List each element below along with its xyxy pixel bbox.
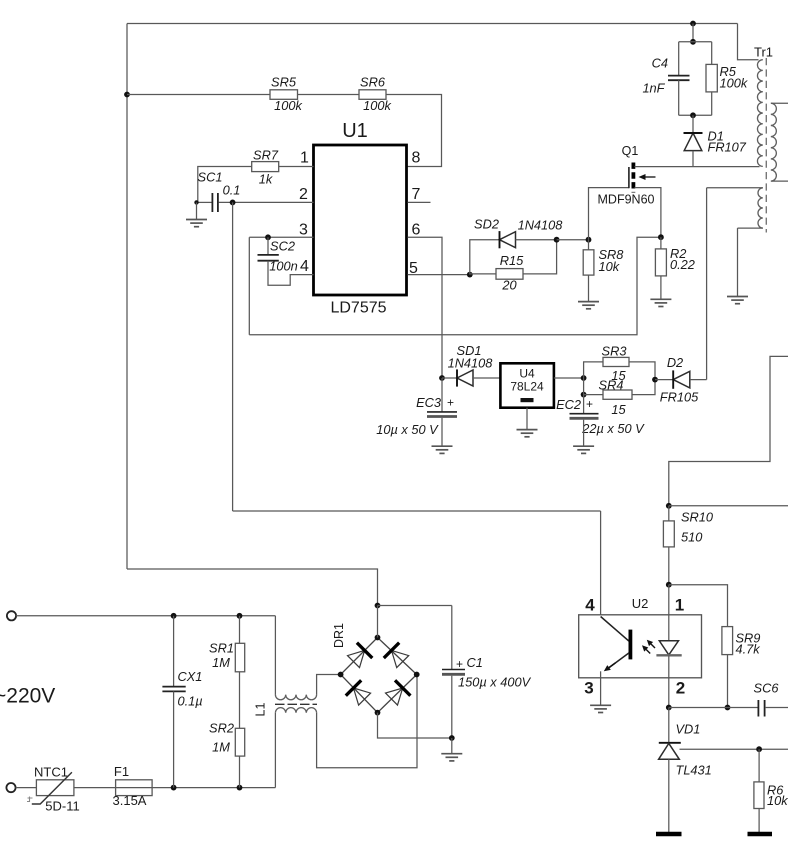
node opto anode: [666, 582, 672, 588]
wire L1 to bridge left: [317, 675, 341, 695]
svg-text:VD1: VD1: [676, 722, 701, 737]
thermistor NTC1 t-mark: [27, 797, 33, 802]
op-amp U4 78L24 body: [500, 363, 554, 407]
arrow U2 emitter: [604, 663, 616, 672]
wire C4 bottom lead: [678, 80, 680, 115]
diode D2: [673, 370, 690, 388]
capacitor EC3: [427, 412, 457, 417]
wire SR3 branch: [584, 362, 603, 378]
svg-text:SR1: SR1: [209, 641, 234, 656]
svg-text:6: 6: [412, 221, 421, 238]
wire EC2 top lead: [583, 395, 585, 414]
terminal AC live: [7, 611, 16, 620]
wire SR6 to pin8: [386, 95, 442, 167]
wire DR1 plus lead: [377, 606, 379, 638]
wire LED top lead: [668, 585, 670, 641]
capacitor C1: [442, 670, 465, 675]
svg-text:0.1: 0.1: [223, 183, 241, 198]
svg-text:DR1: DR1: [332, 623, 346, 648]
ground SR8: [578, 302, 599, 309]
node CX1 top: [171, 613, 177, 619]
wire FB horizontal: [233, 510, 601, 512]
diode VD1 TL431: [659, 743, 681, 760]
resistor SR10: [663, 521, 674, 547]
capacitor SC1: [212, 193, 218, 212]
svg-text:0.1µ: 0.1µ: [178, 694, 203, 709]
wire AC top: [16, 615, 275, 617]
transistor U2 phototransistor: [601, 617, 631, 670]
svg-text:3.15A: 3.15A: [113, 793, 147, 808]
resistor SR5: [270, 90, 298, 100]
ground R6 rail bar: [748, 832, 773, 837]
wire D2 anode lead: [690, 379, 707, 381]
svg-text:CX1: CX1: [178, 669, 203, 684]
wire EC3 top lead: [441, 378, 443, 412]
svg-text:1: 1: [675, 596, 684, 615]
wire pin3 down: [248, 237, 250, 334]
wire secondary bottom stub: [772, 180, 788, 182]
svg-text:1N4108: 1N4108: [448, 356, 494, 371]
wire D2 cathode lead: [655, 379, 673, 381]
node snubber top: [690, 39, 696, 45]
wire output rail right: [669, 505, 788, 507]
node pin5 junction: [467, 272, 473, 278]
svg-text:SR10: SR10: [681, 510, 714, 525]
transformer Tr1 aux winding: [758, 188, 763, 228]
node SR3-SR4 left: [581, 375, 587, 381]
svg-text:C4: C4: [652, 56, 668, 71]
wire C1 ground lead: [451, 738, 453, 754]
wire rail to primary: [738, 24, 759, 60]
svg-text:100k: 100k: [274, 98, 302, 113]
diode DR1 bottom-right: [386, 680, 411, 705]
thermistor NTC1 slash: [32, 772, 72, 804]
wire snubber top bar: [679, 41, 712, 43]
capacitor SC6: [758, 700, 764, 717]
arrow Q1 body: [639, 174, 656, 180]
svg-text:20: 20: [501, 278, 517, 293]
svg-text:SR2: SR2: [209, 721, 234, 736]
svg-text:1k: 1k: [259, 172, 273, 187]
node R6 top: [756, 746, 762, 752]
wire SD1 cathode lead: [442, 377, 457, 379]
capacitor CX1: [162, 687, 185, 692]
wire SR4 right: [632, 380, 655, 395]
svg-text:F1: F1: [114, 764, 129, 779]
node C1 bottom: [449, 735, 455, 741]
fuse F1: [116, 780, 153, 796]
node SR2 bottom: [237, 785, 243, 791]
wire CX1 top lead: [173, 616, 175, 686]
ground U2 pin3: [590, 705, 611, 712]
wire SR8 top lead: [588, 240, 590, 250]
ground EC3: [432, 446, 453, 453]
diode DR1 bottom-left: [346, 680, 371, 705]
node pin2 junction: [230, 200, 236, 206]
node CX1 bottom: [171, 785, 177, 791]
diode D1: [684, 133, 703, 151]
wire CX1 bottom lead: [173, 691, 175, 787]
node DR1 top: [375, 635, 381, 641]
wire CS sense horizontal: [249, 237, 661, 335]
svg-text:EC2: EC2: [556, 397, 581, 412]
wire SR3 right: [629, 362, 655, 380]
svg-text:~220V: ~220V: [0, 685, 55, 708]
wire aux winding bottom: [738, 227, 763, 229]
svg-text:3: 3: [299, 221, 308, 238]
inductor L1 bottom winding: [275, 708, 316, 713]
wire SR1 top lead: [239, 616, 241, 644]
svg-text:Tr1: Tr1: [754, 45, 773, 60]
wire DR1 minus lead: [378, 713, 452, 738]
capacitor SC2: [258, 255, 279, 261]
resistor SR6: [359, 90, 386, 100]
inductor L1 top winding: [275, 695, 316, 700]
svg-text:SR4: SR4: [599, 377, 624, 392]
svg-text:SR7: SR7: [253, 148, 279, 163]
wire SD2 left branch: [470, 240, 500, 275]
node DR1 bottom: [375, 710, 381, 716]
wire R6 top lead: [758, 749, 760, 782]
resistor R2: [655, 249, 666, 276]
wire U4 output: [554, 377, 584, 379]
svg-text:FR105: FR105: [660, 390, 699, 405]
wire SC6 right stub: [765, 707, 788, 709]
inductor L1 core: [275, 703, 317, 705]
arrow U2 light 1: [647, 640, 655, 648]
node SR3-SR4 right: [652, 377, 658, 383]
svg-text:100k: 100k: [720, 76, 748, 91]
wire D1 cathode lead: [692, 115, 694, 133]
node SR9 bottom: [725, 705, 731, 711]
node SC1 ground corner: [194, 200, 198, 204]
wire AC bottom to L1: [274, 713, 276, 788]
op-amp U1 LD7575 body: [314, 145, 407, 295]
svg-text:100k: 100k: [363, 98, 391, 113]
svg-text:R15: R15: [500, 253, 524, 268]
wire R15 left lead: [470, 273, 496, 275]
wire SC1 to pin2: [219, 201, 314, 203]
wire FB pin2 down: [232, 202, 234, 511]
wire HV bus bottom to bridge: [127, 569, 378, 606]
svg-text:10k: 10k: [599, 259, 620, 274]
svg-text:+: +: [456, 657, 463, 671]
node DC+ junction: [375, 603, 381, 609]
wire snubber drop: [692, 24, 694, 42]
wire EC3 ground lead: [441, 418, 443, 446]
svg-text:1M: 1M: [212, 740, 230, 755]
wire Q1 source: [635, 188, 661, 238]
svg-text:8: 8: [412, 149, 421, 166]
node DR1 left: [338, 672, 344, 678]
svg-text:+: +: [586, 397, 593, 411]
wire AC top to L1: [274, 616, 276, 695]
node snubber top rail: [690, 21, 696, 27]
node SR10 top: [666, 503, 672, 509]
op-amp U2 optocoupler body: [579, 615, 702, 678]
diode DR1 top-right: [384, 643, 409, 668]
arrow U2 light 2: [642, 645, 650, 653]
wire F1 to L1: [152, 787, 275, 789]
node SD2-R15 junction: [554, 237, 560, 243]
resistor SR2: [235, 728, 244, 756]
wire SR7 to ground node: [198, 167, 252, 203]
transformer Tr1 primary winding: [757, 60, 762, 167]
wire R15 right branch: [523, 240, 557, 274]
fuse F1 link: [116, 787, 153, 789]
wire pin3 lead: [249, 236, 313, 238]
svg-text:1M: 1M: [212, 655, 230, 670]
node snubber bottom: [690, 112, 696, 118]
resistor R6: [754, 782, 764, 809]
svg-text:4: 4: [300, 258, 309, 275]
ground U4: [517, 430, 538, 437]
ground VD1 rail bar: [656, 832, 682, 837]
diode SD2: [500, 231, 516, 248]
resistor SR9: [722, 627, 733, 655]
svg-text:D2: D2: [667, 355, 683, 370]
wire SR10 top lead: [668, 506, 670, 521]
wire SR8 ground lead: [588, 275, 590, 302]
wire R6 bottom lead: [758, 809, 760, 833]
wire SC1 ground lead: [196, 202, 198, 219]
wire R5 top lead: [711, 42, 713, 65]
wire pin1 lead: [279, 166, 314, 168]
ground C1: [441, 754, 462, 761]
svg-text:0.22: 0.22: [670, 257, 695, 272]
wire U2 pin3 lead: [600, 671, 602, 705]
wire SC2 top lead: [267, 237, 269, 254]
svg-text:4: 4: [585, 596, 595, 615]
diode DR1 top-left: [348, 643, 373, 668]
capacitor C4: [668, 76, 690, 81]
resistor SR8: [583, 250, 594, 275]
svg-text:1: 1: [300, 149, 309, 166]
wire SR1-SR2: [239, 672, 241, 729]
svg-text:FR107: FR107: [708, 140, 747, 155]
wire VD1 cathode lead: [668, 708, 670, 743]
svg-text:L1: L1: [254, 703, 268, 717]
transistor Q1 channel bar: [632, 163, 636, 193]
svg-text:10k: 10k: [767, 793, 788, 808]
wire bottom net: [669, 707, 758, 709]
wire R2 top lead: [660, 237, 662, 249]
wire SR2 bottom lead: [239, 756, 241, 788]
node gate junction: [586, 237, 592, 243]
wire AC bottom to NTC: [16, 787, 37, 789]
svg-text:SC6: SC6: [754, 681, 780, 696]
svg-text:15: 15: [611, 402, 626, 417]
ground transformer aux: [727, 297, 748, 304]
svg-text:+: +: [447, 396, 454, 410]
wire SR5 left lead: [127, 94, 270, 96]
svg-text:7: 7: [412, 186, 421, 203]
svg-text:C1: C1: [467, 655, 483, 670]
svg-text:2: 2: [676, 679, 685, 698]
wire DC+ to C1: [378, 605, 452, 607]
svg-text:10µ x 50 V: 10µ x 50 V: [376, 422, 439, 437]
thermistor NTC1: [36, 780, 74, 796]
wire SR5-SR6: [298, 94, 360, 96]
wire SR9 top branch: [669, 585, 728, 627]
svg-text:22µ x 50 V: 22µ x 50 V: [581, 421, 645, 436]
wire U4 ground lead: [526, 408, 528, 430]
wire C1 top lead: [451, 606, 453, 670]
ground SC1: [186, 220, 207, 227]
svg-text:SC1: SC1: [198, 170, 223, 185]
node SD1 anode junction: [439, 375, 445, 381]
wire SR9 bottom lead: [727, 655, 729, 708]
wire +310V top rail: [127, 23, 738, 25]
svg-text:100n: 100n: [269, 259, 297, 274]
svg-text:SR5: SR5: [271, 75, 297, 90]
wire gate lead: [589, 188, 629, 240]
ground R2: [650, 299, 671, 306]
svg-text:1N4108: 1N4108: [518, 218, 564, 233]
resistor SR1: [235, 643, 244, 672]
wire SC1 left lead: [197, 201, 212, 203]
resistor SR7: [252, 162, 279, 172]
node R2 top junction: [658, 234, 664, 240]
svg-text:MDF9N60: MDF9N60: [598, 192, 655, 206]
diode U2 LED: [656, 641, 681, 656]
wire HV bus left vertical: [126, 24, 128, 570]
wire aux winding top: [707, 187, 763, 189]
wire C4 top lead: [678, 42, 680, 75]
svg-text:EC3: EC3: [416, 395, 441, 410]
wire output sense entry: [669, 356, 788, 505]
wire SC2 bottom to pin4: [268, 261, 314, 286]
wire D1 anode lead: [692, 151, 694, 167]
ground EC2: [573, 446, 594, 453]
svg-text:3: 3: [584, 679, 593, 698]
wire C1 bottom lead: [451, 676, 453, 738]
node SR1 top: [237, 613, 243, 619]
wire SR10 bottom lead: [668, 547, 670, 585]
wire R5 bottom lead: [711, 92, 713, 115]
wire SD2 right lead: [516, 239, 557, 241]
svg-text:NTC1: NTC1: [34, 765, 68, 780]
wire SR4 branch: [584, 378, 603, 395]
wire Q1 drain: [635, 166, 760, 168]
transistor Q1 gate bar: [628, 167, 630, 188]
wire VD1 ref: [680, 748, 788, 750]
node SR4 left: [581, 392, 587, 398]
svg-text:U4: U4: [519, 367, 535, 381]
wire R2 ground lead: [660, 276, 662, 299]
svg-text:LD7575: LD7575: [330, 300, 386, 317]
resistor R15: [496, 269, 523, 280]
svg-text:4.7k: 4.7k: [736, 642, 761, 657]
wire aux to D2: [706, 188, 708, 380]
diode SD1: [457, 369, 473, 386]
transformer Tr1 secondary winding: [771, 103, 777, 181]
wire NTC to F1: [74, 787, 116, 789]
wire EC2 ground lead: [583, 420, 585, 447]
wire to gate node: [557, 239, 589, 241]
resistor R5: [706, 64, 717, 92]
node LED cathode: [666, 705, 672, 711]
terminal AC neutral: [6, 783, 15, 792]
svg-text:150µ x 400V: 150µ x 400V: [458, 675, 532, 690]
wire aux ground lead: [737, 228, 739, 296]
capacitor EC2: [570, 414, 599, 419]
resistor SR3: [603, 357, 629, 366]
wire pin7 stub: [408, 201, 431, 203]
wire pin6 to SD1: [408, 237, 443, 378]
rectifier DR1 diamond: [341, 638, 417, 713]
svg-text:Q1: Q1: [622, 144, 639, 158]
wire snubber bottom bar: [679, 114, 712, 116]
wire pin5 lead: [408, 274, 470, 276]
wire VD1 anode lead: [668, 759, 670, 832]
svg-text:2: 2: [299, 186, 308, 203]
wire SD1 to U4: [473, 377, 500, 379]
wire L1 to bridge right: [317, 675, 417, 768]
op-amp U4 tab mark: [521, 398, 534, 402]
svg-text:U2: U2: [632, 596, 649, 611]
svg-text:1nF: 1nF: [642, 81, 665, 96]
wire secondary top stub: [772, 102, 788, 104]
svg-text:SR6: SR6: [360, 75, 386, 90]
transformer Tr1 core: [765, 58, 767, 233]
svg-text:SC2: SC2: [270, 239, 295, 254]
svg-text:TL431: TL431: [676, 763, 712, 778]
node SC2 junction: [265, 234, 271, 240]
node junction SR5 tap: [124, 92, 130, 98]
wire LED bottom lead: [668, 655, 670, 707]
svg-text:SD2: SD2: [474, 217, 499, 232]
svg-text:SR3: SR3: [602, 344, 627, 359]
wire FB down to opto pin4: [600, 511, 602, 615]
svg-text:510: 510: [681, 530, 703, 545]
svg-text:U1: U1: [342, 120, 368, 142]
svg-text:5D-11: 5D-11: [45, 799, 79, 814]
node DR1 right: [414, 672, 420, 678]
resistor SR4: [603, 390, 632, 399]
svg-text:78L24: 78L24: [510, 380, 544, 394]
